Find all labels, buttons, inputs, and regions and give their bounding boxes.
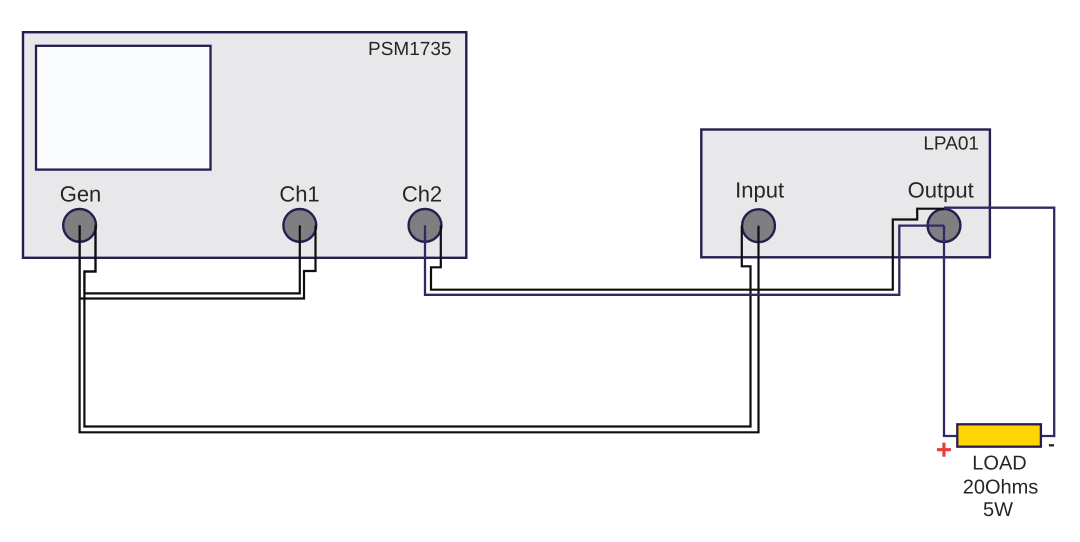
svg-text:-: - — [1048, 434, 1055, 456]
svg-text:Output: Output — [908, 177, 974, 202]
svg-text:Ch1: Ch1 — [279, 181, 319, 206]
svg-text:Input: Input — [735, 177, 784, 202]
svg-text:PSM1735: PSM1735 — [368, 39, 451, 60]
svg-text:Gen: Gen — [60, 181, 102, 206]
svg-text:5W: 5W — [983, 499, 1013, 521]
svg-text:LOAD: LOAD — [972, 452, 1026, 474]
svg-text:20Ohms: 20Ohms — [963, 476, 1039, 498]
svg-text:LPA01: LPA01 — [923, 134, 979, 155]
svg-text:Ch2: Ch2 — [402, 181, 442, 206]
svg-text:+: + — [936, 434, 952, 465]
